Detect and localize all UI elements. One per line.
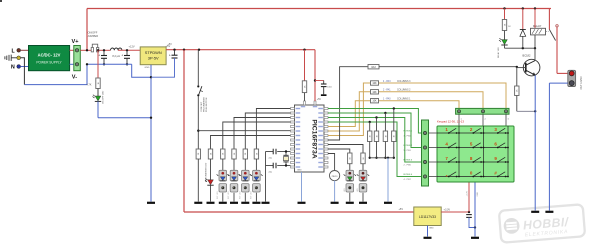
capacitor C5 22p [269, 149, 277, 160]
svg-text:1 - PA0: 1 - PA0 [383, 98, 391, 101]
wire jumper to rail [97, 49, 111, 51]
wire R5 to LED unit [217, 159, 223, 199]
capacitor C1 [98, 50, 107, 65]
resistor for D20 [348, 153, 352, 164]
svg-text:GND: GND [297, 169, 302, 171]
resistor R16 row pulldown [374, 116, 378, 159]
wire MCLR [304, 93, 306, 101]
ground D21 [359, 202, 367, 204]
wire row 3 (green) [328, 118, 422, 167]
wire earth to V- loop [21, 58, 87, 85]
capacitor C7 [466, 215, 476, 229]
capacitor C3 [151, 50, 178, 77]
ground C4 [321, 94, 327, 96]
svg-text:STPDWN: STPDWN [145, 50, 162, 55]
ground col2 [207, 202, 215, 204]
wire GND bus left (blue) [86, 63, 151, 77]
svg-text:+5V: +5V [166, 44, 171, 48]
wire +3,3V out [441, 211, 470, 213]
LED unit D21 closed (red) [357, 170, 369, 181]
corner mark [0, 0, 2, 2]
wire L to power supply [21, 49, 29, 51]
svg-text:4 - PA3: 4 - PA3 [383, 80, 391, 83]
ground col3 [219, 202, 227, 204]
ground STPDWN [147, 202, 155, 204]
ground D20 [346, 202, 354, 204]
wire PIC to D20 [328, 149, 350, 153]
resistor R8 [254, 149, 258, 159]
resistor R14 1K2 [368, 65, 379, 69]
wire resistor to D21 [357, 164, 363, 192]
svg-text:V+: V+ [72, 39, 80, 45]
wire STPDWN GND [150, 65, 152, 202]
connector J2 keypad columns [456, 108, 509, 114]
svg-text:COLUMNS 1: COLUMNS 1 [397, 99, 411, 101]
resistor R7 [243, 149, 247, 159]
wire R2 to LED [97, 89, 99, 97]
regulator U3 LD1117V33 [414, 207, 451, 226]
wire PIC RB fan [198, 109, 290, 150]
diode D23 flyback [520, 9, 526, 49]
sensor unit Q8 [253, 184, 261, 192]
svg-text:PIC16F873A: PIC16F873A [311, 119, 318, 158]
resistor R6 [232, 149, 236, 159]
svg-text:+5V: +5V [317, 99, 322, 101]
svg-text:PUSH BUTTON: PUSH BUTTON [206, 97, 208, 112]
terminal N [11, 65, 21, 71]
svg-text:V-: V- [72, 75, 77, 81]
resistor R20 [502, 20, 511, 31]
svg-text:10K: 10K [372, 91, 377, 94]
capacitor C6 22p [269, 163, 277, 174]
svg-text:+3,3V: +3,3V [444, 209, 451, 212]
resistor R15 row pulldown [368, 121, 372, 159]
wire unit to ground [233, 193, 235, 202]
relay K1 coil [531, 9, 549, 49]
resistor R12 10K [371, 81, 379, 85]
svg-text:2 - PA1: 2 - PA1 [383, 89, 391, 92]
wire crystal gnd [265, 152, 267, 202]
wire D21 to ground [362, 193, 364, 202]
wire +5V left drop [183, 50, 185, 212]
svg-text:10K: 10K [372, 100, 377, 103]
svg-text:GND: GND [477, 192, 479, 197]
wire +12V to R2 [97, 50, 99, 78]
svg-text:Keypad 12-36, 12-13: Keypad 12-36, 12-13 [437, 120, 464, 124]
piezo BZ1 [330, 171, 340, 181]
ground OUT- [545, 211, 553, 213]
svg-text:COLUMNS 3: COLUMNS 3 [397, 81, 411, 83]
sensor unit below D20 [346, 184, 354, 192]
wire unit to ground [255, 193, 257, 202]
wire PIC to 1K2 [328, 67, 368, 140]
wire R8 to LED unit [251, 159, 257, 199]
svg-text:N: N [11, 65, 15, 71]
svg-text:+: + [121, 54, 123, 58]
logo watermark [499, 204, 585, 242]
svg-text:*: * [446, 174, 448, 179]
svg-text:+3,3V: +3,3V [466, 191, 468, 197]
wire row 2 (green) [328, 113, 422, 152]
svg-text:4,7K: 4,7K [87, 84, 92, 87]
wire OSC1 [266, 151, 291, 153]
ground col5 [241, 202, 249, 204]
wire keypad GND [475, 182, 479, 237]
wire keypad +3,3V [466, 182, 469, 212]
wire PIC to piezo [328, 154, 335, 171]
wire unit to ground [244, 193, 246, 202]
wire +5V bottom bus [184, 208, 414, 212]
ground keypad [471, 237, 479, 239]
svg-text:LD1117V33: LD1117V33 [419, 215, 436, 219]
wire button to node [197, 96, 199, 149]
svg-text:ROWS 4: ROWS 4 [404, 174, 413, 176]
resistor R3 [196, 149, 200, 159]
wire R6 to LED unit [228, 159, 234, 199]
svg-text:KEY LED: KEY LED [217, 191, 219, 199]
sensor unit Q6 [230, 184, 238, 192]
wire row 4 (green) [328, 122, 422, 181]
wire emitter to ground [534, 75, 536, 210]
wire base [516, 66, 526, 68]
svg-text:4 - PB7: 4 - PB7 [404, 179, 412, 181]
sensor unit Q5 [219, 184, 227, 192]
keypad KP1 [437, 126, 514, 182]
wire unit to ground [222, 193, 224, 202]
wire R20 to LED [504, 31, 506, 40]
wire R7 to LED unit [239, 159, 245, 199]
wire resistor to D20 [344, 164, 350, 192]
svg-text:JUMPER: JUMPER [88, 34, 99, 38]
ground LD1117 [424, 237, 432, 239]
ground col6 [252, 202, 260, 204]
power supply PS1 AC/DC-12V [29, 46, 70, 71]
wire OSC2 [266, 165, 291, 167]
LED unit D8 red/blue [250, 170, 262, 181]
svg-text:AC/DC- 12V: AC/DC- 12V [38, 52, 61, 57]
svg-text:ROWS 3: ROWS 3 [404, 160, 413, 162]
wire PIC to D21 [328, 145, 363, 154]
capacitor C2 [121, 50, 130, 65]
label keypad part [437, 120, 464, 124]
LED D2 code red [205, 179, 214, 186]
wire column 1 (orange) [328, 98, 459, 127]
regulator U2 STPDWN 3P-5V [140, 43, 172, 69]
wire column 2 (orange) [328, 89, 483, 131]
svg-text:3P-5V: 3P-5V [148, 55, 159, 60]
wire OUT+ [557, 72, 568, 74]
relay contact SW2 [549, 9, 558, 74]
wire +12V top bus [87, 9, 551, 51]
LED unit D5 red/blue [217, 170, 229, 181]
resistor R21 base pulldown [515, 68, 519, 96]
ground emitter [531, 211, 539, 213]
wire LED to GND [98, 101, 152, 119]
wire row 1 (green) [328, 109, 422, 138]
resistor R10 10K [371, 99, 379, 103]
resistor R18 row pulldown [392, 107, 396, 159]
jumper JP1 ON/OFF [88, 31, 99, 52]
svg-text:KEY LED: KEY LED [239, 191, 241, 199]
ground PIC [298, 202, 306, 204]
wire 1K2 to base [379, 66, 517, 68]
resistor R17 row pulldown [383, 112, 387, 159]
resistor R9 MCLR pullup [302, 50, 306, 93]
connector J4 OUT 12VDC [568, 70, 583, 89]
LED unit D7 red/blue [239, 170, 251, 181]
wire OUT- to ground [549, 83, 567, 210]
resistor R11 10K [371, 90, 379, 94]
resistor for D21 [361, 153, 365, 164]
svg-text:OUT 12VDC: OUT 12VDC [580, 76, 583, 90]
transistor Q1 BC182 [523, 48, 540, 76]
svg-text:PIEZO: PIEZO [332, 176, 338, 178]
svg-text:KEY LED: KEY LED [251, 191, 253, 199]
LED D22 RELAY (green) [497, 38, 508, 58]
ground pulldowns [384, 202, 392, 204]
connector J1 V+/V- [70, 39, 81, 80]
wires J2 to keypad [459, 114, 510, 126]
svg-text:ON-OFF LED: ON-OFF LED [103, 90, 105, 104]
LED unit D20 open (green) [344, 170, 356, 181]
svg-text:KEY LED: KEY LED [228, 191, 230, 199]
resistor R2 4,7K [87, 78, 101, 89]
sensor unit Q7 [242, 184, 250, 192]
wire R3 to ground [197, 159, 199, 202]
wire +12V to R20 [504, 9, 506, 20]
svg-text:1K2: 1K2 [371, 66, 376, 69]
IC U1 PIC16F873A [291, 101, 329, 172]
wire pulldown gnd bus [370, 157, 394, 202]
svg-text:+12V: +12V [129, 44, 135, 48]
wire R21 to emitter [517, 96, 537, 113]
svg-text:COLUMNS 2: COLUMNS 2 [397, 90, 411, 92]
ground piezo [331, 202, 339, 204]
svg-text:GND: GND [429, 228, 434, 230]
resistor R5 [221, 149, 225, 159]
svg-text:2 - PB5: 2 - PB5 [404, 164, 412, 166]
wire +5V to push button [197, 50, 199, 85]
LED D1 ON-OFF (green) [93, 90, 105, 104]
svg-text:+: + [98, 54, 100, 58]
push button SW1 CODE SET PROGRAMMER [197, 85, 208, 112]
wire D20 to ground [349, 193, 351, 202]
LED unit D6 red/blue [228, 170, 240, 181]
svg-text:8,2 µH: 8,2 µH [112, 54, 120, 58]
terminal L [12, 48, 21, 54]
svg-text:+: + [169, 53, 171, 57]
wire PIC GND [301, 172, 303, 202]
svg-text:RELAY: RELAY [533, 24, 542, 28]
crystal X1 [283, 150, 288, 166]
resistor R4 [208, 149, 212, 159]
ground col1 [194, 202, 202, 204]
wire R4 to LED D2 [204, 159, 210, 182]
ground col4 [230, 202, 238, 204]
wire N to power supply [21, 66, 29, 68]
sensor unit below D21 [359, 184, 367, 192]
inductor L1 8,2uH [111, 48, 122, 58]
connector J3 keypad rows [422, 120, 438, 186]
ground crystal [262, 202, 270, 204]
svg-text:10K: 10K [372, 82, 377, 85]
wire +5V rail [166, 44, 316, 51]
svg-text:RELAY LED: RELAY LED [497, 47, 500, 58]
node V+ junction [80, 49, 91, 51]
svg-text:+5V: +5V [398, 208, 403, 211]
wire inductor to +12V [118, 44, 141, 51]
svg-text:BC182: BC182 [523, 53, 531, 57]
wire D2 to ground [210, 185, 212, 201]
wire LD1117 GND [428, 226, 435, 237]
svg-text:POWER SUPPLY: POWER SUPPLY [36, 60, 62, 64]
node +12V taps [503, 7, 536, 9]
wire LED to collector line [505, 45, 537, 49]
capacitor C4 100n [315, 81, 333, 95]
wire piezo to ground [334, 181, 336, 202]
earth terminal [5, 55, 21, 61]
wire column 3 (orange) [328, 80, 506, 136]
wire VDD [314, 50, 322, 101]
svg-text:GND: GND [145, 67, 150, 69]
